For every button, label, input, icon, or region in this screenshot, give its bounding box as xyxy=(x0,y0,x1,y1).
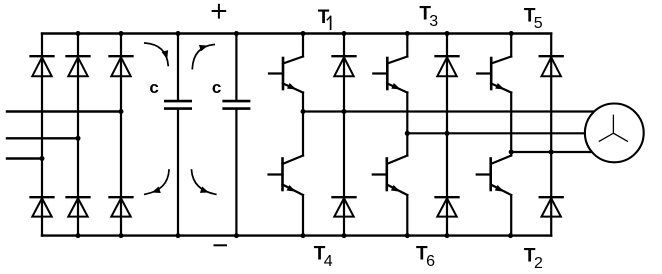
wire AC input phase T xyxy=(7,157,42,159)
junction input S / leg2 xyxy=(76,136,81,141)
label T3 xyxy=(419,4,438,30)
wire freewheel column leg 2 xyxy=(446,34,448,236)
wire rectifier leg 1 vertical xyxy=(41,34,43,236)
wire freewheel column leg 1 xyxy=(343,34,345,236)
label T2 xyxy=(524,246,543,272)
junction bottom bus x=78 xyxy=(76,233,81,238)
junction top bus x=303 xyxy=(301,31,306,36)
transistor T2 xyxy=(477,156,512,236)
arrow discharge current bottom-right xyxy=(192,170,216,194)
label c (C1) xyxy=(149,78,158,97)
diode DF2 (freewheel bottom) xyxy=(540,197,563,216)
wire rectifier leg 2 vertical xyxy=(77,34,79,236)
diode D5 (rectifier top) xyxy=(110,56,133,76)
wire bottom DC bus (-) xyxy=(42,234,551,236)
arrow charge current top-right xyxy=(192,45,214,69)
diode D1 (rectifier top) xyxy=(31,56,54,76)
junction top bus x=178 xyxy=(176,31,181,36)
diode DF4 (freewheel bottom) xyxy=(333,197,356,216)
junction top bus x=447 xyxy=(445,31,450,36)
junction bottom bus x=121 xyxy=(119,233,124,238)
junction phase U at T1 leg xyxy=(301,109,306,114)
transistor T3 xyxy=(373,34,407,93)
wire T1 emitter to T4 collector xyxy=(302,93,304,156)
junction phase W at DF5 column xyxy=(549,150,554,155)
label T6 xyxy=(416,244,435,270)
junction bottom bus x=178 xyxy=(176,233,181,238)
junction top bus x=121 xyxy=(119,31,124,36)
transistor T5 xyxy=(477,34,511,93)
diode D6 (rectifier bottom) xyxy=(67,197,90,216)
junction bottom bus x=303 xyxy=(301,233,306,238)
wire phase W output xyxy=(511,151,592,153)
svg-text:c: c xyxy=(212,78,221,97)
svg-text:5: 5 xyxy=(534,15,543,32)
wire freewheel column leg 3 xyxy=(550,34,552,236)
arrow discharge current bottom-left xyxy=(145,170,169,194)
wire AC input phase S xyxy=(7,137,78,139)
diode DF3 (freewheel top) xyxy=(436,56,459,76)
arrow charge current top-left xyxy=(145,43,168,66)
capacitor C1 xyxy=(165,34,190,236)
wire phase U output xyxy=(303,110,594,112)
label T4 xyxy=(314,244,333,270)
svg-text:3: 3 xyxy=(429,13,438,30)
junction top bus x=407.3 xyxy=(405,31,410,36)
junction bottom bus x=236.4 xyxy=(234,233,239,238)
svg-text:2: 2 xyxy=(534,255,543,272)
junction phase W at T5 leg xyxy=(509,150,514,155)
junction phase V at DF3 column xyxy=(445,131,450,136)
wire T3 emitter to T6 collector xyxy=(406,93,408,156)
junction bottom bus x=510.5 xyxy=(508,233,513,238)
svg-text:T: T xyxy=(318,7,330,28)
svg-text:6: 6 xyxy=(426,253,435,270)
junction top bus x=511.2 xyxy=(509,31,514,36)
diode D2 (rectifier bottom) xyxy=(110,197,133,216)
junction top bus x=236.4 xyxy=(234,31,239,36)
wire AC input phase R xyxy=(7,110,121,112)
junction phase V at T3 leg xyxy=(405,131,410,136)
svg-text:4: 4 xyxy=(324,253,333,270)
junction input R / leg3 xyxy=(119,109,124,114)
diode D4 (rectifier bottom) xyxy=(31,197,54,216)
label - (negative rail) xyxy=(215,244,227,246)
wire phase V output xyxy=(407,132,585,134)
junction top bus x=78 xyxy=(76,31,81,36)
label c (C2) xyxy=(212,78,221,97)
diode DF5 (freewheel top) xyxy=(540,56,563,76)
diode DF1 (freewheel top) xyxy=(333,56,356,76)
svg-text:c: c xyxy=(149,78,158,97)
label + (positive rail) xyxy=(213,5,226,18)
wire T5 emitter to T2 collector xyxy=(510,93,512,156)
transistor T1 xyxy=(269,34,303,93)
wire rectifier leg 3 vertical xyxy=(120,34,122,236)
motor M (3-phase) xyxy=(585,103,644,162)
transistor T6 xyxy=(373,156,408,236)
label T1 xyxy=(318,7,331,29)
junction bottom bus x=407.3 xyxy=(405,233,410,238)
junction phase U at DF1 column xyxy=(342,109,347,114)
junction input T / leg1 xyxy=(40,156,45,161)
transistor T4 xyxy=(269,156,304,236)
junction bottom bus x=344 xyxy=(342,233,347,238)
capacitor C2 xyxy=(224,34,249,236)
diode D3 (rectifier top) xyxy=(67,56,90,76)
diode DF6 (freewheel bottom) xyxy=(436,197,459,216)
junction bottom bus x=447 xyxy=(445,233,450,238)
wire top DC bus (+) xyxy=(42,32,551,34)
label T5 xyxy=(524,6,543,32)
junction top bus x=344 xyxy=(342,31,347,36)
